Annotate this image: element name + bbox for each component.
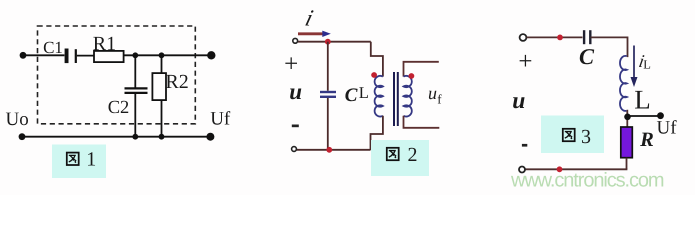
junction node (bottom of R2) (159, 134, 165, 140)
top-left terminal (open circle) (520, 34, 527, 41)
bottom-left input terminal (open circle) (292, 147, 297, 152)
primary polarity dot (red) (371, 72, 377, 78)
secondary winding (4 right-facing loops) (404, 76, 412, 117)
wire C2 branch lower (134, 93, 136, 136)
wire C1 to R1 (77, 55, 94, 57)
bottom-left terminal dot (19, 133, 26, 140)
current arrow (298, 31, 331, 37)
wire step down to primary winding top (371, 42, 383, 77)
junction node (top of R2) (159, 52, 165, 58)
caption glyph 图 (fig 3) (563, 129, 575, 141)
svg-text:C1: C1 (43, 38, 63, 57)
junction dot on top wire (red) (557, 35, 563, 41)
svg-text:2: 2 (408, 144, 418, 166)
wire R2 branch lower (161, 100, 163, 137)
svg-text:u: u (428, 83, 437, 103)
caption box 图3 (541, 116, 604, 154)
Uf terminal dot (657, 112, 664, 119)
wire C2 branch upper (134, 55, 136, 88)
caption glyph 图 (fig 1) (67, 153, 79, 165)
wire junction to Uf terminal (628, 115, 661, 117)
capacitor C branch upper wire (327, 42, 329, 91)
wire R bottom to bottom rail (626, 158, 628, 170)
svg-text:Uo: Uo (6, 109, 29, 130)
svg-text:Uf: Uf (657, 118, 678, 139)
top-left input terminal (open circle) (293, 38, 298, 43)
node Uf output terminal (top-right dot) (207, 51, 215, 59)
junction node (top of C2) (132, 52, 138, 58)
svg-text:R1: R1 (93, 33, 116, 55)
bottom-left terminal (open circle) (519, 167, 525, 173)
label - (fig3) (522, 144, 527, 147)
svg-text:1: 1 (86, 149, 96, 171)
capacitor C (series, two vertical plates) (584, 30, 590, 44)
inductor L primary winding (4 left-facing loops) (375, 76, 383, 117)
svg-text:L: L (634, 85, 651, 115)
junction node capacitor bottom (red dot) (326, 147, 332, 153)
svg-text:L: L (643, 58, 651, 72)
secondary winding top lead (404, 62, 439, 77)
svg-text:u: u (512, 88, 525, 114)
current arrow iL (downwards) (631, 46, 638, 88)
resistor R (purple filled box) (621, 127, 633, 158)
inductor L (4 left-facing loops) (620, 56, 627, 111)
dashed selection box around RC network (38, 26, 196, 124)
secondary polarity dot (red) (409, 73, 415, 79)
junction node above R (624, 114, 631, 121)
svg-text:f: f (437, 92, 442, 107)
wire from coil to junction (626, 111, 629, 127)
caption box 图1 (52, 145, 106, 179)
top wire right of capacitor + corner down (591, 37, 628, 56)
svg-text:www.cntronics.com: www.cntronics.com (510, 170, 664, 192)
bottom wire (297, 149, 371, 151)
capacitor C branch lower wire (327, 98, 329, 150)
svg-text:C2: C2 (108, 98, 130, 118)
wire R1 to output terminal (124, 54, 212, 56)
capacitor C2 (vertical branch, two horizontal plates) (125, 88, 148, 93)
capacitor C plates (navy) (320, 92, 336, 97)
svg-text:3: 3 (581, 126, 591, 148)
junction node capacitor top (red dot) (325, 39, 331, 45)
capacitor C1 (series, thick left plate + thin right plate) (65, 49, 76, 64)
label uf (output voltage) (428, 83, 442, 107)
svg-text:Uf: Uf (210, 109, 231, 130)
wire from input terminal to C1 (23, 54, 64, 56)
bottom rail wire (22, 136, 210, 138)
node Uo input terminal (top-left dot) (20, 52, 27, 59)
label iL (637, 51, 651, 72)
label - (fig2) (292, 125, 299, 128)
bottom rail wire (fig3) (526, 168, 628, 170)
svg-text:u: u (289, 79, 302, 104)
top wire to transformer (298, 41, 371, 43)
caption box 图2 (371, 140, 429, 176)
resistor R1 (horizontal box) (94, 51, 124, 62)
svg-text:C: C (579, 44, 595, 69)
transformer core (two vertical bars) (394, 72, 398, 126)
svg-text:R: R (639, 129, 654, 151)
svg-text:L: L (359, 83, 369, 102)
svg-text:+: + (284, 51, 298, 78)
wire step down from primary winding bottom (371, 116, 383, 150)
secondary winding bottom lead (404, 116, 440, 128)
svg-text:C: C (345, 85, 358, 106)
wire R2 branch upper (161, 55, 163, 73)
svg-text:+: + (518, 48, 532, 75)
junction node (bottom of C2) (132, 134, 138, 140)
junction dot on bottom wire (red) (557, 166, 563, 172)
caption glyph 图 (fig 2) (387, 148, 399, 160)
top wire left of capacitor (527, 36, 583, 38)
resistor R2 (vertical box) (152, 73, 166, 100)
svg-text:R2: R2 (165, 71, 188, 93)
bottom-right terminal dot (206, 133, 214, 141)
svg-text:i: i (303, 6, 316, 31)
